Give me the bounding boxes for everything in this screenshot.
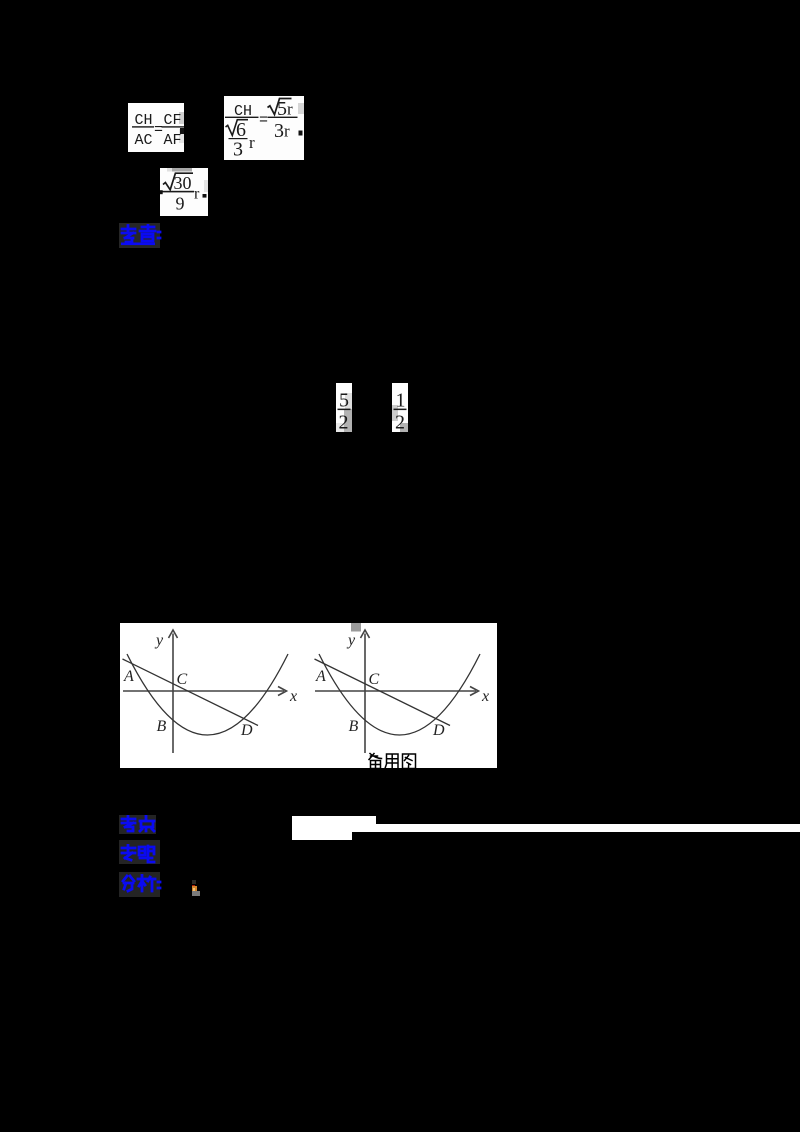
blue row 3: fenxi [119,872,160,897]
y-axis [172,634,174,754]
svg-text:=: = [154,122,163,139]
x-axis [315,690,476,692]
svg-text:A: A [315,668,326,685]
parabola [127,654,288,735]
svg-text:1: 1 [396,390,406,412]
svg-text:B: B [348,718,358,735]
svg-text:y: y [346,632,356,649]
svg-text:AC: AC [135,132,153,149]
svg-text:r: r [249,133,255,152]
white redaction shape [292,816,352,840]
svg-text:B: B [156,718,166,735]
svg-text:y: y [154,632,164,649]
formula box 2: CH/(sqrt6/3 r) = sqrt5 r/3r [224,96,304,160]
line AD [122,659,258,726]
blue row 1: kaodian [119,815,156,834]
svg-text:0: 0 [183,173,192,193]
right diagram [351,623,361,632]
svg-text:5: 5 [339,390,349,412]
blue label top (dianping) [119,223,160,248]
svg-text:2: 2 [395,412,405,433]
svg-text:3: 3 [274,120,284,142]
svg-text:=: = [259,112,268,129]
svg-text:x: x [289,688,297,705]
blue row 2: zhuanti [119,840,160,864]
y-axis [364,634,366,754]
svg-text:3: 3 [233,139,243,161]
parabola [319,654,480,735]
svg-text:AF: AF [164,132,182,149]
svg-text:D: D [240,722,253,739]
graph white box with two parabola diagrams [120,623,497,768]
fraction 1/2 [392,383,408,432]
svg-text:r: r [194,186,200,203]
svg-text:C: C [368,671,379,688]
caption beiyongtu [369,754,416,769]
x-axis [123,690,284,692]
line AD [314,659,450,726]
svg-text:9: 9 [176,194,185,214]
svg-text:D: D [432,722,445,739]
formula box 1: CH/AC = CF/AF [128,103,184,152]
svg-text:r: r [284,122,290,141]
svg-text:C: C [176,671,187,688]
svg-text:2: 2 [339,412,349,433]
svg-text:A: A [123,668,134,685]
flame artifact [192,880,197,885]
fraction 5/2 [336,383,352,432]
svg-text:r: r [287,100,293,119]
formula box 3: sqrt30/9 r [160,168,208,216]
left diagram [123,630,287,753]
svg-text:x: x [481,688,489,705]
